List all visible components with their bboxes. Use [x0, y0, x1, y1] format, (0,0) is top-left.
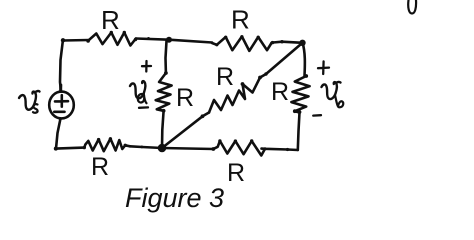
svg-text:R: R	[176, 84, 194, 112]
label Va subscript a	[138, 94, 147, 103]
node B (top junction)	[166, 37, 172, 43]
label Vs subscript s	[33, 104, 38, 113]
tick on wire	[147, 37, 150, 40]
dots at R3 ends	[164, 71, 168, 75]
resistor R3 (vertical, Va branch)	[156, 73, 172, 111]
wire R3 down to node E	[162, 111, 164, 148]
wire node C down to Vb resistor	[303, 43, 305, 76]
svg-text:R: R	[227, 159, 245, 187]
voltage source Vs circle	[49, 92, 74, 119]
resistor R7 (bottom right)	[213, 141, 265, 156]
wire node E to R6	[130, 146, 162, 148]
label Va script v	[130, 81, 145, 98]
svg-text:R: R	[101, 5, 120, 35]
resistor R1 (top left)	[88, 33, 136, 46]
dots on R6	[124, 144, 127, 147]
svg-text:R: R	[231, 5, 250, 35]
plus sign inside source	[55, 95, 68, 106]
minus sign of Vb	[313, 114, 321, 117]
wire bottom right horizontal	[262, 149, 298, 150]
svg-text:R: R	[91, 153, 109, 181]
stray mark top right (cut-off letter)	[408, 0, 416, 14]
wire source top up to corner A	[60, 40, 63, 91]
wire R2 to node C	[272, 42, 303, 43]
dots at R5 ends	[304, 74, 308, 78]
svg-text:R: R	[271, 78, 289, 106]
node top-left corner A	[61, 38, 65, 42]
node C (top right)	[299, 40, 305, 46]
wire R6 to bottom-left corner F	[56, 148, 84, 149]
svg-text:Figure 3: Figure 3	[125, 183, 224, 213]
minus sign of Va	[139, 106, 148, 109]
node E (bottom junction)	[158, 144, 167, 153]
plus sign of Vb	[318, 61, 329, 74]
wire F up to source bottom	[56, 119, 61, 149]
svg-text:R: R	[216, 63, 234, 91]
diagonal wire to node C	[260, 43, 303, 78]
resistor R2 (top right)	[212, 37, 272, 51]
wire R7 to node E	[162, 148, 213, 149]
wire top-left horizontal	[63, 39, 89, 42]
diagonal wire E to zigzag	[162, 113, 209, 149]
node F (bottom-left corner)	[54, 147, 58, 151]
wire R5 to bottom-right corner D	[295, 111, 300, 150]
wire node B down to R3	[166, 41, 167, 73]
resistor R6 (bottom left)	[84, 139, 130, 152]
resistor R5 (vertical, Vb branch)	[291, 76, 309, 111]
label Vb subscript b	[335, 95, 343, 107]
dots on diagonal	[241, 82, 245, 86]
tick at source top	[59, 85, 62, 92]
junction dot end of R1	[134, 38, 137, 41]
wire R1 to node B	[136, 39, 169, 40]
junction dots on wire	[271, 41, 274, 44]
plus sign of Va	[142, 61, 151, 72]
resistor R4 (diagonal)	[209, 78, 260, 113]
dots at R7 ends	[211, 147, 215, 151]
wire node B to R2	[169, 40, 212, 43]
label Vb script v	[322, 82, 341, 99]
label Vs script v	[19, 91, 40, 110]
minus sign inside source	[54, 111, 64, 114]
